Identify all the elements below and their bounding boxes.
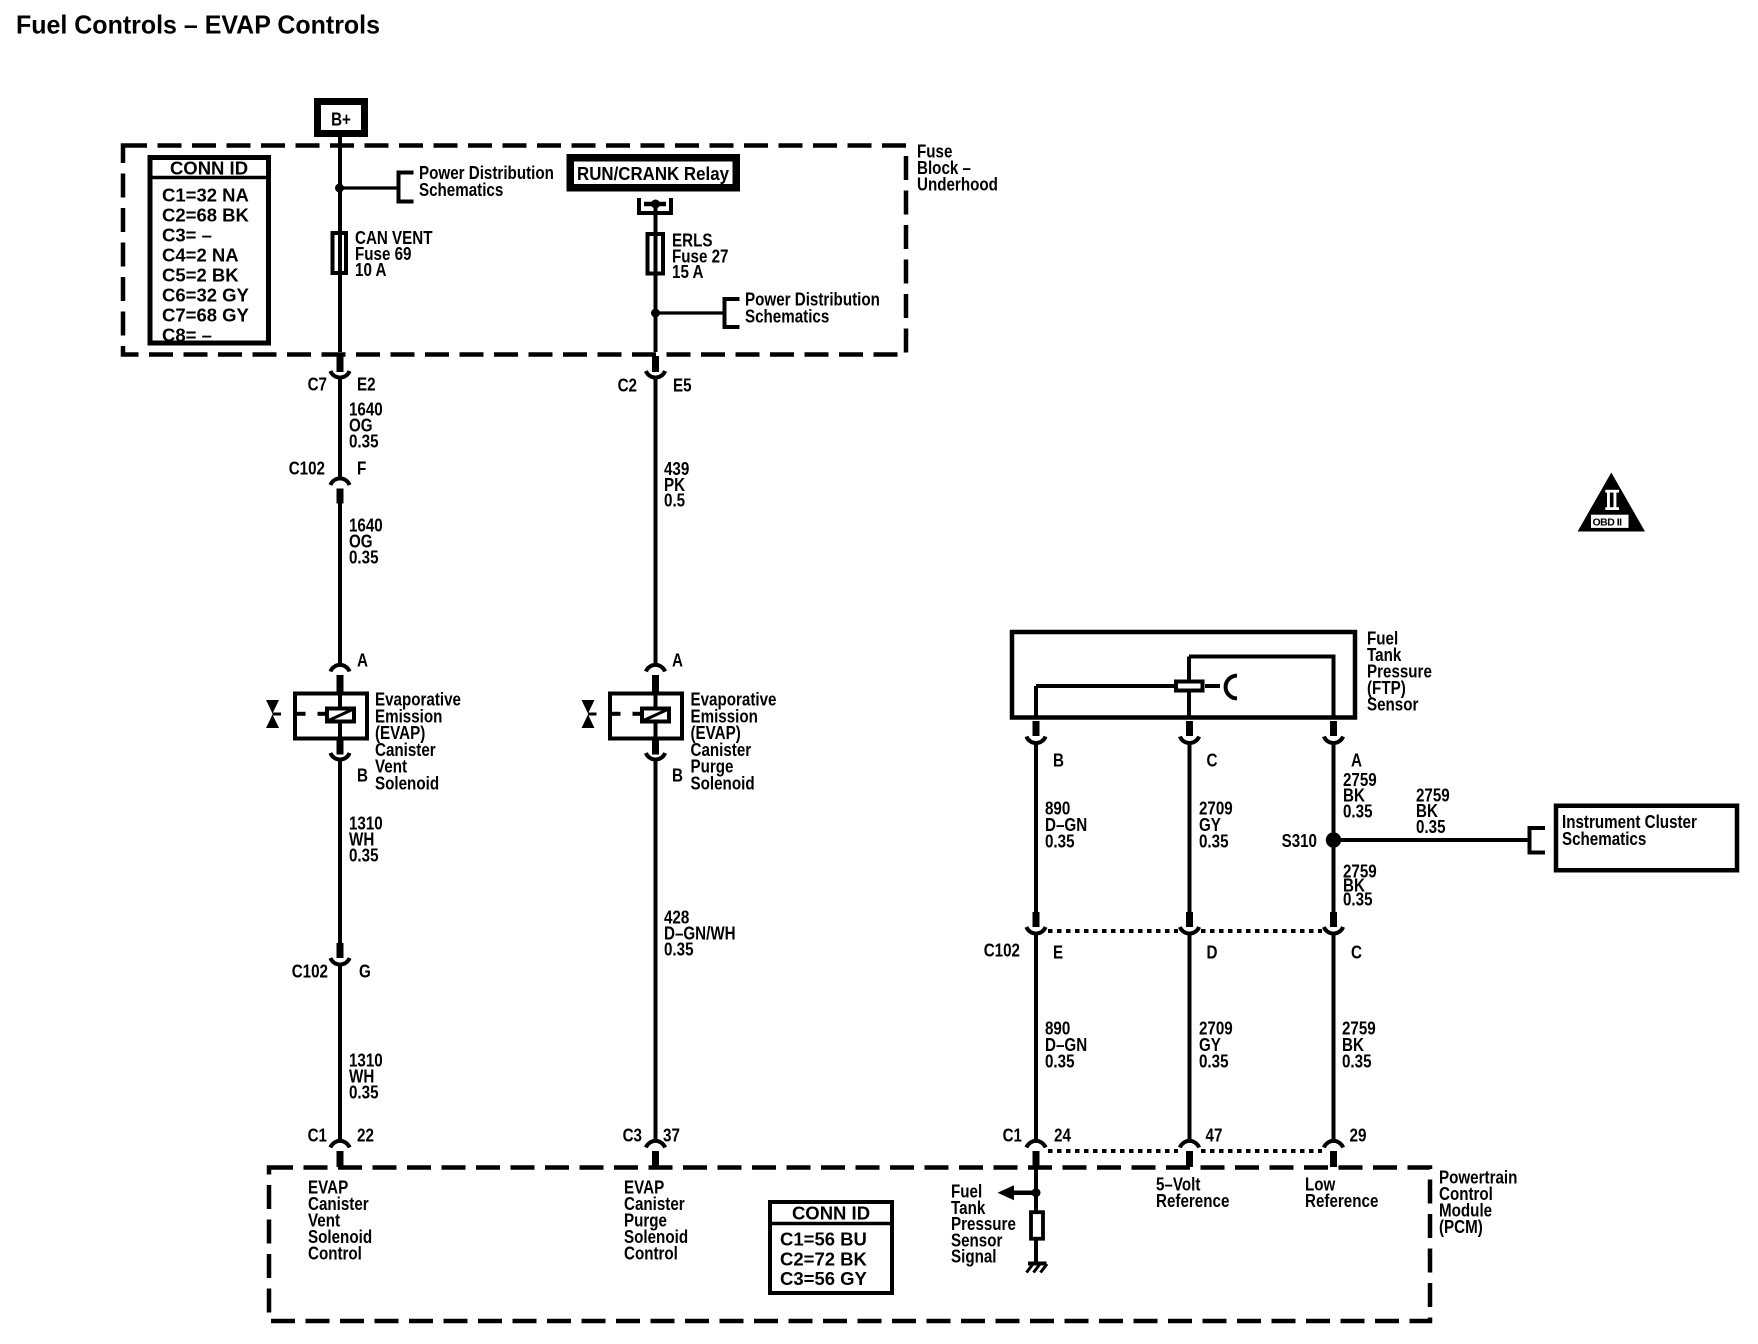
wire tee to power distribution reference (right) <box>656 311 723 314</box>
battery feed B+ symbol <box>318 102 365 134</box>
svg-text:Fuel Controls – EVAP Controls: Fuel Controls – EVAP Controls <box>16 10 380 40</box>
svg-text:CONN ID: CONN ID <box>170 158 248 179</box>
off-page bracket: instrument cluster schematics <box>1528 826 1545 855</box>
wire 2759 BK 0.35 (FTP A to S310) <box>1334 742 1377 840</box>
svg-text:B+: B+ <box>331 109 351 130</box>
svg-text:A: A <box>672 650 683 671</box>
svg-text:C5=2 BK: C5=2 BK <box>162 265 239 286</box>
wire relay to fuse 27 <box>654 204 658 234</box>
wire 2709 GY 0.35 (lower) <box>1190 933 1233 1140</box>
connector C1 pin 24 (PCM) <box>1003 1125 1072 1168</box>
svg-text:15 A: 15 A <box>672 261 704 282</box>
svg-text:C102: C102 <box>292 961 328 982</box>
svg-text:A: A <box>357 650 368 671</box>
dotted tie line at C102 <box>1048 929 1322 933</box>
EVAP canister vent solenoid <box>293 689 461 794</box>
svg-text:0.35: 0.35 <box>1045 1050 1075 1071</box>
wire fuse 27 to C2 <box>654 234 658 352</box>
svg-text:Reference: Reference <box>1156 1190 1229 1211</box>
svg-text:10 A: 10 A <box>355 259 387 280</box>
svg-text:0.35: 0.35 <box>1342 1050 1372 1071</box>
svg-text:E: E <box>1053 942 1063 963</box>
connector C102 C <box>1324 912 1362 963</box>
connector C2 / E5 <box>618 356 692 396</box>
svg-text:0.5: 0.5 <box>664 490 685 511</box>
wire tee to power distribution reference <box>340 186 398 189</box>
svg-text:C: C <box>1207 750 1218 771</box>
connector C1 pin 22 (PCM) <box>308 1125 374 1168</box>
wire B+ to fuse block <box>338 137 342 146</box>
svg-text:Schematics: Schematics <box>419 179 503 200</box>
instrument cluster schematics box <box>1556 806 1737 871</box>
svg-text:C1: C1 <box>308 1125 327 1146</box>
svg-text:B: B <box>672 765 683 786</box>
svg-text:F: F <box>357 458 366 479</box>
svg-text:C3: C3 <box>623 1125 642 1146</box>
wire through fuse 69 down to C7 <box>338 233 342 273</box>
svg-text:C2=72 BK: C2=72 BK <box>780 1248 868 1269</box>
svg-text:C3=56 GY: C3=56 GY <box>780 1268 868 1289</box>
ground symbol <box>1027 1264 1048 1273</box>
svg-text:B: B <box>357 765 368 786</box>
svg-text:E5: E5 <box>673 375 692 396</box>
wire 1640 OG 0.35 (upper) <box>340 377 383 477</box>
svg-text:24: 24 <box>1054 1125 1071 1146</box>
CONN ID table (PCM) <box>770 1202 892 1293</box>
wire 1640 OG 0.35 (lower) <box>340 504 383 664</box>
svg-text:A: A <box>1351 750 1362 771</box>
PCM pull resistor <box>1031 1212 1043 1239</box>
svg-text:0.35: 0.35 <box>1343 889 1373 910</box>
svg-text:D: D <box>1207 942 1218 963</box>
svg-text:C102: C102 <box>289 458 325 479</box>
junction node on B+ feed <box>335 184 344 193</box>
connector C7 / E2 <box>308 356 376 395</box>
connector C102 D <box>1180 912 1218 963</box>
PCM input: EVAP canister vent solenoid control <box>308 1177 372 1264</box>
svg-text:C1=56 BU: C1=56 BU <box>780 1229 867 1250</box>
svg-text:C1: C1 <box>1003 1125 1022 1146</box>
svg-text:0.35: 0.35 <box>664 939 694 960</box>
connector A (FTP) <box>1324 721 1362 771</box>
connector C102 G <box>292 943 371 982</box>
fuse CAN VENT Fuse 69 10 A <box>333 227 434 280</box>
wire pin 24 into PCM <box>1034 1167 1038 1212</box>
PCM output: 5-volt reference <box>1156 1174 1229 1212</box>
connector pin 29 (PCM) <box>1324 1125 1367 1168</box>
svg-text:C102: C102 <box>984 940 1020 961</box>
svg-text:Reference: Reference <box>1305 1190 1378 1211</box>
PCM input: EVAP canister purge solenoid control <box>624 1177 688 1264</box>
svg-text:0.35: 0.35 <box>1045 831 1075 852</box>
svg-text:Schematics: Schematics <box>745 306 829 327</box>
svg-text:0.35: 0.35 <box>1199 831 1229 852</box>
connector C (FTP) <box>1180 721 1218 771</box>
wire 1310 WH 0.35 (lower) <box>340 964 383 1141</box>
OBD II marker <box>1578 473 1645 532</box>
svg-text:C2: C2 <box>618 375 637 396</box>
FTP internal wiring <box>1036 655 1334 720</box>
svg-text:(PCM): (PCM) <box>1439 1216 1483 1237</box>
wire 2759 BK 0.35 (lower) <box>1334 933 1376 1140</box>
connector B (FTP) <box>1026 721 1064 771</box>
dotted tie line at PCM connector <box>1048 1149 1322 1153</box>
svg-text:47: 47 <box>1206 1125 1223 1146</box>
svg-text:C6=32 GY: C6=32 GY <box>162 285 250 306</box>
svg-text:Solenoid: Solenoid <box>375 773 439 794</box>
splice node S310 <box>1282 830 1342 851</box>
svg-text:22: 22 <box>357 1125 374 1146</box>
relay output terminal symbol <box>639 198 671 213</box>
fuse ERLS Fuse 27 15 A <box>648 230 729 283</box>
svg-text:G: G <box>359 961 371 982</box>
EVAP canister purge solenoid <box>608 689 777 794</box>
svg-text:C7=68 GY: C7=68 GY <box>162 305 250 326</box>
connector C3 pin 37 (PCM) <box>623 1125 680 1168</box>
svg-text:CONN ID: CONN ID <box>792 1203 870 1224</box>
svg-text:C4=2 NA: C4=2 NA <box>162 245 239 266</box>
wire from B+ down to fuse 69 <box>338 146 342 233</box>
svg-text:Signal: Signal <box>951 1246 997 1267</box>
svg-text:B: B <box>1053 750 1064 771</box>
svg-text:E2: E2 <box>357 374 376 395</box>
svg-text:0.35: 0.35 <box>1416 816 1446 837</box>
svg-text:C8= –: C8= – <box>162 325 212 346</box>
svg-text:C1=32 NA: C1=32 NA <box>162 185 249 206</box>
connector C102 F <box>289 458 367 504</box>
wire 1310 WH 0.35 (upper) <box>340 759 383 944</box>
svg-text:RUN/CRANK Relay: RUN/CRANK Relay <box>577 163 730 184</box>
powertrain control module (PCM) dashed box <box>269 1167 1517 1322</box>
svg-text:C2=68 BK: C2=68 BK <box>162 205 250 226</box>
junction node on ERLS feed <box>651 309 660 318</box>
wire resistor to ground <box>1034 1240 1038 1264</box>
svg-text:Solenoid: Solenoid <box>691 773 755 794</box>
svg-text:Control: Control <box>624 1243 678 1264</box>
svg-text:29: 29 <box>1350 1125 1367 1146</box>
svg-text:37: 37 <box>663 1125 680 1146</box>
fuel tank pressure (FTP) sensor box <box>1012 628 1432 718</box>
connector C102 E <box>984 912 1063 963</box>
connector B (purge solenoid) <box>646 740 683 786</box>
svg-text:Underhood: Underhood <box>917 174 998 195</box>
svg-text:OBD II: OBD II <box>1593 516 1623 528</box>
fuse block - underhood dashed box <box>123 141 998 355</box>
wire 890 D-GN 0.35 (upper) <box>1036 742 1087 913</box>
svg-text:Sensor: Sensor <box>1367 694 1418 715</box>
connector pin 47 (PCM) <box>1180 1125 1223 1168</box>
purge solenoid valve symbol <box>582 700 597 728</box>
svg-text:0.35: 0.35 <box>349 431 379 452</box>
svg-text:C7: C7 <box>308 374 327 395</box>
wire 2759 BK 0.35 (S310 down) <box>1334 840 1377 913</box>
svg-text:Schematics: Schematics <box>1562 828 1646 849</box>
connector A (vent solenoid) <box>330 650 368 693</box>
PCM signal arrow <box>998 1185 1037 1200</box>
connector A (purge solenoid) <box>646 650 683 693</box>
off-page bracket: power distribution schematics (right) <box>723 289 880 330</box>
svg-text:0.35: 0.35 <box>349 845 379 866</box>
svg-text:C3= –: C3= – <box>162 225 212 246</box>
svg-text:0.35: 0.35 <box>1199 1050 1229 1071</box>
PCM input: fuel tank pressure sensor signal <box>951 1181 1016 1267</box>
svg-text:C: C <box>1351 942 1362 963</box>
junction node at signal tap <box>1032 1188 1041 1197</box>
PCM input: low reference <box>1305 1174 1378 1212</box>
svg-text:Control: Control <box>308 1243 362 1264</box>
off-page bracket: power distribution schematics (left) <box>397 162 554 204</box>
svg-text:0.35: 0.35 <box>1343 800 1373 821</box>
svg-text:0.35: 0.35 <box>349 547 379 568</box>
wire 2759 BK 0.35 (S310 to instrument cluster) <box>1334 785 1528 841</box>
svg-text:0.35: 0.35 <box>349 1082 379 1103</box>
wire 2709 GY 0.35 (upper) <box>1190 742 1233 913</box>
connector B (vent solenoid) <box>330 740 368 786</box>
svg-text:S310: S310 <box>1282 830 1317 851</box>
wire 428 D-GN/WH 0.35 <box>656 759 736 1141</box>
vent solenoid valve symbol <box>266 700 281 728</box>
RUN/CRANK Relay box <box>570 158 736 188</box>
wire 439 PK 0.5 <box>656 377 690 663</box>
CONN ID table (fuse block) <box>150 158 269 346</box>
wire 890 D-GN 0.35 (lower) <box>1036 933 1087 1140</box>
FTP wiper arc <box>1226 676 1237 699</box>
FTP sense element (resistor) <box>1176 682 1203 691</box>
